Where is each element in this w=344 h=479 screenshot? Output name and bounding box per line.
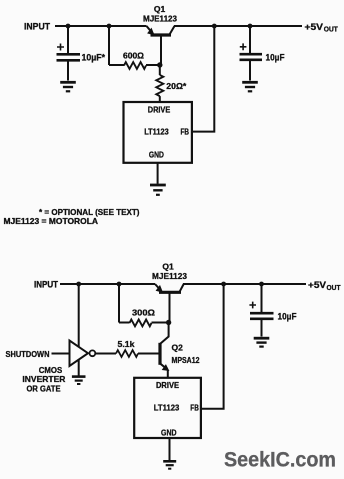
svg-text:10µF: 10µF [266,53,285,63]
node junction C (FB tap) [212,24,217,29]
node junction G (300 ohm tap) [117,282,122,287]
ground (under inverter) [72,377,86,384]
resistor R1 600 ohm [109,26,160,69]
ground (under C2) [242,82,258,91]
capacitor C2 10uF output (top) [240,26,263,81]
wire top input rail [55,25,147,27]
capacitor C1 10uF* input [57,26,81,81]
resistor R3 300 ohm [119,284,169,326]
wire FB feedback (top) [192,26,214,132]
svg-text:DRIVE: DRIVE [148,104,171,114]
svg-text:SeekIC.com: SeekIC.com [224,448,336,472]
svg-text:20Ω*: 20Ω* [166,81,187,91]
svg-text:INVERTER: INVERTER [22,374,65,384]
svg-text:Q1: Q1 [162,262,174,272]
svg-text:MJE1123: MJE1123 [152,271,187,281]
svg-text:MJE1123: MJE1123 [143,14,177,24]
svg-text:FB: FB [181,127,190,137]
op-amp U3 LT1123 regulator block (bottom) [134,378,201,438]
svg-text:GND: GND [149,150,164,160]
svg-text:INPUT: INPUT [34,279,58,289]
node junction I (output cap tap bottom) [259,282,264,287]
svg-text:600Ω: 600Ω [123,51,144,61]
resistor R2 20 ohm* [156,67,163,102]
svg-text:LT1123: LT1123 [154,403,180,413]
svg-text:GND: GND [161,427,177,437]
node +5VOUT label (top) [305,22,339,34]
node junction D (output cap tap) [248,24,253,29]
svg-text:DRIVE: DRIVE [156,380,179,390]
wire U3 gnd lead [169,438,171,460]
svg-text:FB: FB [190,403,199,413]
transistor Q1 (top) MJE1123 PNP pass transistor [147,26,175,65]
gate U2 CMOS inverter [70,284,96,376]
svg-text:SHUTDOWN: SHUTDOWN [6,349,50,359]
svg-text:Q1: Q1 [154,4,166,14]
wire U1 gnd lead [157,163,159,184]
svg-text:OUT: OUT [324,27,339,34]
svg-text:+5V: +5V [305,22,324,32]
wire FB feedback (bottom) [201,284,224,409]
transistor Q1 (bottom) MJE1123 PNP pass transistor [155,284,184,323]
ground (under C1) [60,82,76,91]
node junction J (Q1 base / Q2 collector) [166,320,171,325]
label CMOS INVERTER OR GATE [22,365,65,394]
wire shutdown to inverter [52,353,70,355]
svg-text:OUT: OUT [327,285,342,292]
svg-text:300Ω: 300Ω [132,308,155,318]
capacitor C3 10uF output (bottom) [249,284,273,337]
ground (under U1) [150,185,166,195]
svg-text:MPSA12: MPSA12 [172,355,200,365]
wire bottom output rail [183,283,306,285]
node junction A (input cap tap) [66,24,71,29]
node junction E (600/20/base) [157,62,162,67]
wire bottom input rail [60,283,155,285]
svg-text:INPUT: INPUT [24,22,50,33]
op-amp U1 LT1123 regulator block (top) [124,102,192,163]
wire top output rail [174,25,302,27]
node junction F (inverter supply tap) [76,282,81,287]
transistor Q2 MPSA12 NPN [138,323,169,378]
node junction B (600 ohm tap) [107,24,112,29]
ground (under C3) [254,338,270,346]
svg-text:10µF: 10µF [278,312,297,322]
svg-text:OR GATE: OR GATE [27,384,61,394]
resistor R4 5.1k [96,350,138,357]
node +5VOUT label (bottom) [308,280,341,292]
svg-text:10µF*: 10µF* [82,53,106,63]
svg-text:LT1123: LT1123 [144,127,169,137]
svg-text:+5V: +5V [308,280,326,290]
svg-text:Q2: Q2 [172,343,184,353]
svg-text:* = OPTIONAL (SEE TEXT): * = OPTIONAL (SEE TEXT) [39,208,140,217]
svg-text:5.1k: 5.1k [118,339,135,349]
node junction H (FB tap bottom) [221,282,226,287]
ground (under U3) [163,461,176,468]
svg-text:MJE1123 = MOTOROLA: MJE1123 = MOTOROLA [4,217,99,226]
